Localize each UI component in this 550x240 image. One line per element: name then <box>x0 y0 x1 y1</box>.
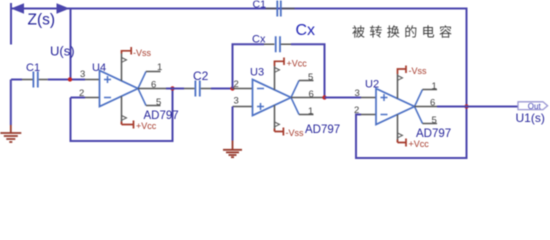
junction U4 output <box>170 86 174 90</box>
pin U4 pin3 stub <box>85 79 100 81</box>
pin U2 pin6 output stub <box>415 106 438 108</box>
capacitor Cx leads <box>264 43 291 45</box>
node Z(s) dimension arrow left <box>11 3 24 13</box>
junction U2 output <box>464 104 468 108</box>
junction U3 output <box>322 95 326 99</box>
wire top net from Z(s) to U2 output <box>11 9 467 107</box>
svg-text:AD797: AD797 <box>305 124 340 136</box>
wire U2 feedback loop <box>356 107 467 159</box>
svg-text:Out: Out <box>528 102 542 111</box>
op-amp U2 triangle <box>376 89 423 125</box>
ground GND U3 <box>223 141 242 158</box>
pin U4 pin6 output stub <box>138 88 166 90</box>
svg-text:6: 6 <box>309 89 314 100</box>
pin U4 pin5 stub <box>146 105 161 107</box>
svg-text:+Vcc: +Vcc <box>409 139 430 149</box>
svg-text:Z(s): Z(s) <box>28 12 56 29</box>
svg-text:U1(s): U1(s) <box>516 111 545 125</box>
pin U3 pin2 stub <box>233 88 253 90</box>
pin U3 pin6 output stub <box>291 97 324 99</box>
svg-text:5: 5 <box>432 115 437 126</box>
svg-text:5: 5 <box>308 72 313 83</box>
svg-text:U4: U4 <box>92 62 106 74</box>
svg-text:5: 5 <box>156 97 161 108</box>
power U2 +Vcc bottom <box>398 115 430 150</box>
wire U3 out to U2 pin3 <box>325 97 362 99</box>
svg-text:3: 3 <box>234 96 239 107</box>
svg-text:C1: C1 <box>253 0 267 11</box>
capacitor C1 input leads <box>22 79 48 81</box>
svg-text:3: 3 <box>355 88 360 99</box>
svg-text:+Vcc: +Vcc <box>287 59 308 69</box>
pin U3 pin5 stub <box>299 80 314 82</box>
svg-text:-Vss: -Vss <box>133 48 152 58</box>
pin U4 pin2 stub <box>85 97 100 99</box>
power U2 -Vss top <box>398 66 428 99</box>
svg-text:被转换的电容: 被转换的电容 <box>352 24 456 39</box>
power U3 -Vss bottom <box>275 105 305 138</box>
op-amp U4 triangle <box>100 71 147 107</box>
svg-text:-Vss: -Vss <box>286 128 305 138</box>
junction input node <box>68 77 72 81</box>
svg-text:Cx: Cx <box>296 22 316 39</box>
svg-text:C2: C2 <box>193 69 209 83</box>
ground GND left <box>0 125 21 142</box>
capacitor C1 top plates <box>277 1 281 17</box>
wire Cx feedback box <box>233 44 325 97</box>
svg-text:1: 1 <box>308 106 313 117</box>
power U3 +Vcc top <box>275 58 308 90</box>
capacitor Cx plates <box>276 36 280 52</box>
wire U4 feedback loop <box>71 89 173 142</box>
wire U4 pin2 from feedback <box>71 97 86 99</box>
wire U3 pin3 ground drop <box>232 107 234 141</box>
power U4 -Vss top <box>122 47 152 81</box>
wire U4 out to C2 <box>166 88 232 90</box>
svg-text:U2: U2 <box>365 79 379 91</box>
svg-text:AD797: AD797 <box>144 110 179 122</box>
svg-text:U(s): U(s) <box>50 44 75 59</box>
power U4 +Vcc bottom <box>122 96 157 131</box>
svg-text:+Vcc: +Vcc <box>136 121 157 131</box>
node Z(s) left tick <box>10 3 12 45</box>
svg-text:6: 6 <box>151 79 156 90</box>
junction U3 input node <box>230 86 234 90</box>
svg-text:C1: C1 <box>26 62 40 74</box>
pin U2 pin3 stub <box>361 97 376 99</box>
svg-text:Cx: Cx <box>252 34 266 46</box>
svg-text:3: 3 <box>80 69 85 80</box>
port Out banner <box>518 102 548 111</box>
pin U3 pin3 stub <box>233 106 253 108</box>
svg-text:6: 6 <box>430 97 435 108</box>
svg-text:1: 1 <box>432 81 437 92</box>
svg-text:1: 1 <box>157 62 162 73</box>
capacitor C2 leads <box>184 88 211 90</box>
capacitor C2 plates <box>195 81 199 97</box>
wire U2 out to port <box>437 106 518 108</box>
wire input node horizontal <box>11 79 85 81</box>
svg-text:-Vss: -Vss <box>409 66 428 76</box>
wire top C1 leads <box>266 8 295 10</box>
wire right tick down to input node <box>70 9 72 80</box>
pin U4 pin1 stub <box>146 71 161 73</box>
op-amp U3 triangle (flipped) <box>253 80 300 116</box>
node Z(s) dimension arrow right <box>57 3 70 13</box>
pin U3 pin1 stub <box>299 114 314 116</box>
capacitor C1 input plates <box>33 72 37 88</box>
wire ground drop left <box>10 80 12 126</box>
svg-text:U3: U3 <box>250 67 264 79</box>
pin U2 pin5 stub <box>423 123 438 125</box>
pin U2 pin2 stub <box>361 114 376 116</box>
pin U2 pin1 stub <box>423 89 438 91</box>
